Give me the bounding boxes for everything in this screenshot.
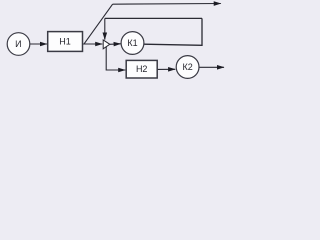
junction triangle (103, 40, 110, 49)
svg-text:К2: К2 (182, 62, 192, 72)
wire feedback drop into junction (104, 18, 106, 39)
amplifier circle K1 (121, 32, 144, 55)
wire into H2 (106, 69, 125, 71)
wire feedback top (105, 17, 202, 19)
wire top output (113, 3, 221, 6)
wire source to H1 (30, 43, 47, 45)
wire feedback K1 right (144, 18, 202, 45)
block H2 (126, 60, 157, 78)
wire junction to K1 (110, 43, 121, 46)
wire tap diagonal (84, 4, 112, 43)
wire H2 to K2 (157, 68, 175, 70)
svg-text:К1: К1 (127, 38, 137, 48)
wire branch down to H2 (106, 47, 110, 70)
block H1 (48, 32, 83, 52)
svg-text:Н2: Н2 (136, 64, 148, 74)
output circle K2 (176, 56, 199, 79)
source circle I (7, 33, 30, 56)
wire H1 to junction (83, 43, 103, 45)
svg-text:И: И (15, 39, 21, 49)
svg-text:Н1: Н1 (59, 36, 71, 46)
wire K2 output (199, 66, 224, 68)
